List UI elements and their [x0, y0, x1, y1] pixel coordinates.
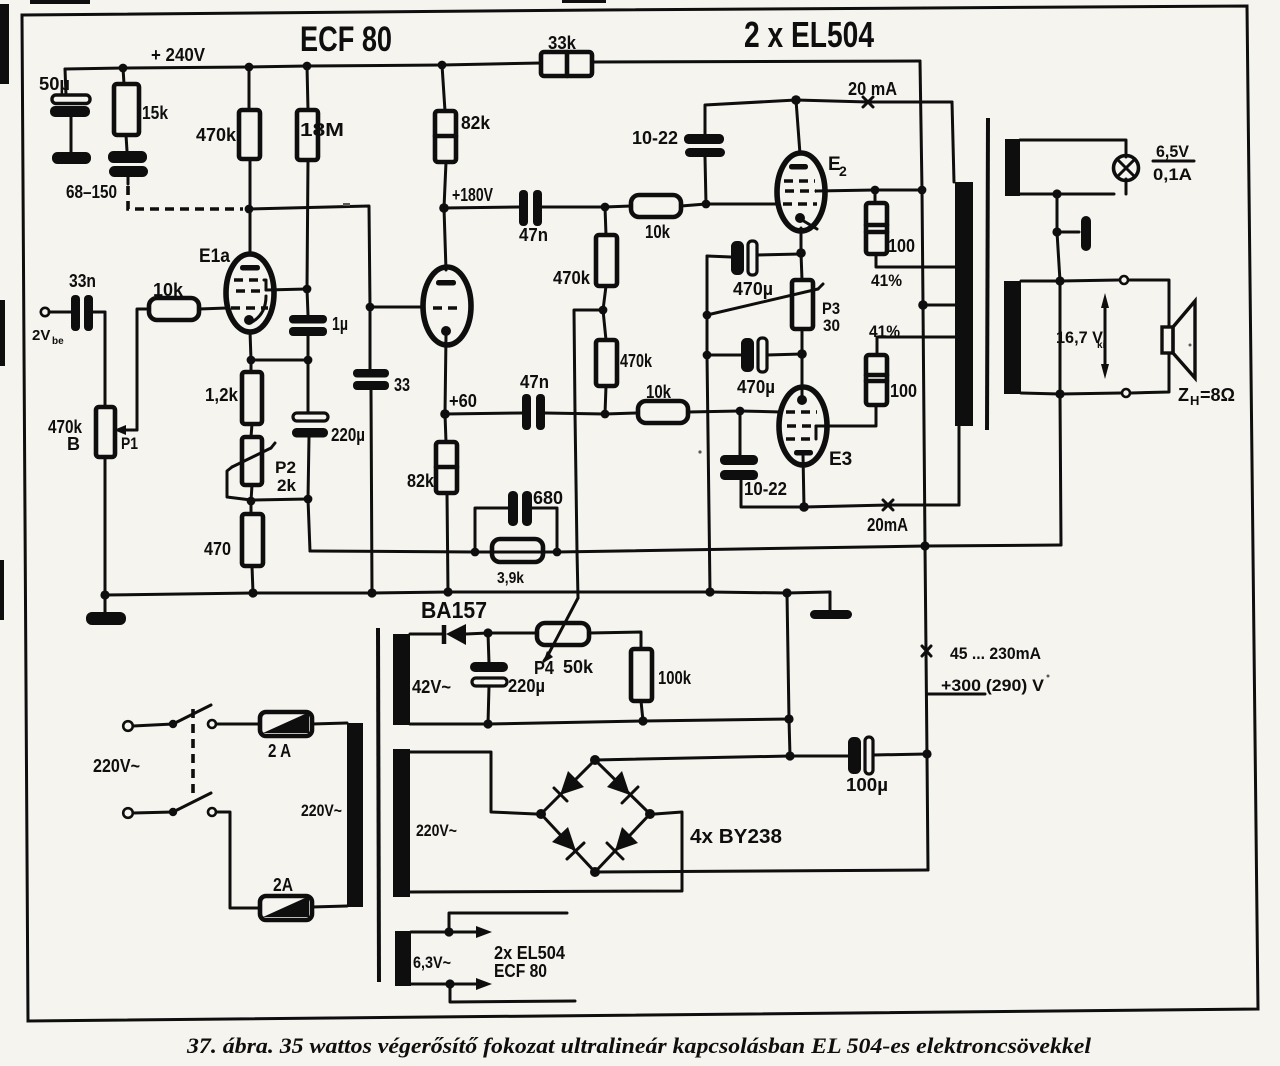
wire to E3 grid — [740, 411, 781, 412]
node bias rectifier — [483, 628, 492, 637]
svg-text:P4: P4 — [534, 658, 554, 678]
output transformer lamp winding — [1005, 139, 1020, 196]
svg-text:Z: Z — [1178, 385, 1189, 405]
svg-text:470µ: 470µ — [737, 377, 775, 397]
node hum bus lower — [703, 351, 712, 360]
power transformer 42V winding — [393, 634, 410, 725]
tube E1b (ECF80 triode section) — [423, 208, 471, 414]
svg-text:+ 240V: + 240V — [151, 45, 205, 65]
node E2 grid / 10-22 junction — [702, 200, 711, 209]
diode D1 upper-left — [554, 771, 584, 801]
svg-text:50µ: 50µ — [39, 74, 70, 94]
svg-text:ECF 80: ECF 80 — [494, 961, 547, 981]
node E2 anode — [791, 95, 801, 105]
wire 20mA line bottom — [804, 426, 959, 535]
wire ground-to-bridge vertical — [787, 593, 790, 756]
capacitor 33n — [49, 271, 105, 331]
node grid2 junction — [366, 303, 375, 312]
svg-text:100µ: 100µ — [846, 775, 888, 795]
node E2 cathode — [796, 248, 806, 258]
diode D3 lower-left — [552, 827, 584, 859]
node bridge minus — [785, 751, 794, 760]
measuring arrow 16,7V — [1101, 293, 1109, 379]
svg-text:E1a: E1a — [199, 246, 230, 267]
potentiometer P1 470k B — [48, 309, 149, 595]
svg-text:+300 (290) V: +300 (290) V — [941, 676, 1045, 695]
capacitor 470µ (E3 cathode) — [707, 338, 802, 397]
wire HT top to bridge — [410, 752, 536, 814]
output transformer core — [987, 118, 988, 430]
svg-text:4x BY238: 4x BY238 — [690, 826, 782, 848]
svg-text:1µ: 1µ — [332, 314, 348, 334]
chassis stub near lamp — [1052, 194, 1091, 251]
diode D4 lower-right — [607, 827, 638, 859]
svg-text:45 ... 230mA: 45 ... 230mA — [950, 644, 1041, 663]
resistor 100 (E3 screen) — [866, 337, 955, 405]
resistor 100k — [631, 649, 692, 721]
wire +300 stub — [928, 693, 985, 696]
svg-text:B: B — [67, 434, 80, 454]
svg-text:P2: P2 — [275, 458, 296, 477]
tube E1a (ECF80 pentode section) — [199, 246, 274, 332]
svg-text:+180V: +180V — [452, 185, 493, 205]
svg-text:470k: 470k — [196, 125, 237, 145]
svg-text:=8Ω: =8Ω — [1200, 385, 1235, 405]
resistor 100 (E2 screen) — [866, 190, 955, 267]
mains switch lower — [123, 793, 216, 818]
capacitor 220µ bias — [470, 633, 545, 724]
svg-text:470k: 470k — [620, 351, 653, 371]
measuring point X bottom — [883, 500, 893, 510]
ground symbol right — [810, 592, 852, 619]
wire common line — [310, 545, 1061, 552]
svg-text:15k: 15k — [142, 103, 169, 123]
diode BA157 — [410, 624, 488, 645]
bridge rectifier 4x BY238 — [536, 755, 782, 877]
svg-text:470µ: 470µ — [733, 279, 773, 299]
potentiometer P3 30 — [707, 253, 840, 354]
capacitor 68-150 — [66, 151, 148, 202]
svg-text:220V~: 220V~ — [416, 821, 457, 840]
svg-text:6,5V: 6,5V — [1156, 142, 1190, 161]
svg-text:82k: 82k — [461, 113, 491, 133]
resistor 470 — [204, 501, 263, 593]
svg-text:2V: 2V — [32, 327, 50, 344]
wire E1a cathode lead — [250, 331, 251, 360]
wire +300 feed vertical — [920, 61, 928, 870]
node bias divider mid — [599, 306, 608, 315]
wire to E2 grid — [706, 203, 779, 206]
potentiometer P2 2k — [227, 437, 297, 501]
label ZH=8 ohm — [1178, 385, 1235, 408]
svg-text:2 A: 2 A — [268, 741, 291, 761]
wire bridge minus to common — [595, 756, 790, 760]
svg-text:2: 2 — [839, 163, 847, 179]
resistor 10k (input grid stopper) — [149, 280, 227, 320]
capacitor 100µ — [790, 737, 932, 795]
svg-text:+60: +60 — [449, 391, 477, 411]
potentiometer P4 50k — [488, 598, 641, 678]
svg-text:2k: 2k — [277, 476, 297, 495]
svg-text:P1: P1 — [121, 434, 138, 453]
power transformer primary winding — [347, 723, 363, 907]
node E3 grid / 10-22 junction — [736, 407, 745, 416]
resistor 10k (E3 grid) — [605, 382, 740, 423]
tube E2 (EL504) — [777, 100, 847, 253]
wire E3 screen line — [816, 405, 876, 426]
capacitor 10-22 (upper trimmer) — [632, 100, 796, 204]
wire E1a screen to 18M node — [266, 289, 307, 290]
loudspeaker — [1162, 301, 1195, 378]
svg-text:10k: 10k — [153, 280, 184, 300]
node +300 at common line — [920, 541, 929, 550]
node 47n / 470k junction — [601, 203, 610, 212]
output transformer primary winding — [955, 182, 973, 426]
resistor 3,9k — [471, 539, 562, 587]
svg-text:680: 680 — [533, 488, 563, 508]
wire bridge plus riser — [595, 870, 928, 872]
wire E2 screen line — [816, 186, 926, 195]
resistor 470k (E1a anode) — [196, 67, 260, 255]
svg-text:18M: 18M — [300, 120, 344, 140]
capacitor 47n (bottom coupling) — [445, 372, 605, 430]
svg-text:2 x EL504: 2 x EL504 — [744, 14, 874, 55]
svg-text:33k: 33k — [548, 33, 577, 53]
svg-text:470k: 470k — [553, 268, 591, 288]
resistor 82k (E1b anode) — [435, 65, 491, 208]
wire P2 bottom to 220µ line — [251, 499, 308, 500]
svg-text:100: 100 — [890, 381, 917, 401]
svg-text:10-22: 10-22 — [632, 128, 678, 148]
svg-text:H: H — [1190, 393, 1199, 408]
node P2 bottom to 220µ line — [304, 495, 313, 504]
power transformer HT winding — [393, 749, 410, 897]
node +180V — [439, 185, 493, 213]
svg-text:220V~: 220V~ — [301, 801, 342, 820]
heater lead upper — [411, 913, 567, 938]
speaker circuit wires — [1021, 276, 1169, 399]
svg-text:33: 33 — [394, 375, 410, 395]
svg-text:20mA: 20mA — [867, 515, 908, 535]
resistor 1,2k — [205, 360, 262, 437]
wire center tap — [918, 300, 955, 310]
capacitor 470µ (E2 cathode) — [707, 241, 801, 315]
ground bus — [100, 587, 830, 599]
diode D2 upper-right — [607, 771, 638, 803]
paper specks — [343, 203, 1192, 678]
node P2 bottom — [247, 497, 256, 506]
svg-text:100: 100 — [888, 236, 915, 256]
resistor 33k — [541, 33, 592, 76]
resistor 18M — [297, 66, 344, 289]
svg-text:33n: 33n — [69, 271, 96, 291]
output transformer speaker winding — [1004, 281, 1021, 394]
svg-text:50k: 50k — [563, 657, 594, 677]
wire to E1b grid — [370, 306, 424, 309]
power transformer 6,3V winding — [395, 931, 411, 986]
svg-text:42V~: 42V~ — [412, 677, 451, 697]
node E3 cathode top — [797, 349, 807, 359]
tube E3 (EL504, inverted) — [779, 354, 852, 507]
node hum bus upper — [703, 311, 712, 320]
wire HT bottom to bridge — [410, 812, 682, 892]
svg-text:10k: 10k — [646, 382, 672, 402]
resistor 82k (E1b cathode) — [407, 414, 457, 592]
fuse 2A upper — [216, 712, 347, 761]
resistor 470k (lower bias divider) — [596, 310, 653, 414]
ground symbol left — [86, 595, 126, 625]
capacitor 10-22 (lower trimmer) — [720, 411, 804, 507]
svg-text:2x EL504: 2x EL504 — [494, 943, 565, 963]
svg-text:41%: 41% — [871, 271, 902, 290]
capacitor 50µ — [39, 69, 90, 152]
label 16,7V — [1056, 328, 1106, 351]
measuring point X +300 — [922, 646, 931, 656]
capacitor 220µ — [292, 360, 365, 551]
capacitor 47n (top coupling) — [444, 190, 605, 245]
svg-text:220µ: 220µ — [331, 425, 365, 445]
capacitor 33 — [353, 307, 410, 593]
svg-text:470: 470 — [204, 539, 231, 559]
resistor 15k — [114, 68, 169, 151]
resistor 470k (upper bias divider) — [553, 207, 617, 310]
svg-text:10k: 10k — [645, 222, 671, 242]
wire bias feed vertical — [574, 310, 603, 598]
power transformer core — [378, 628, 379, 982]
svg-text:37. ábra. 35 wattos végerősítő: 37. ábra. 35 wattos végerősítő fokozat u… — [186, 1033, 1092, 1058]
svg-text:1,2k: 1,2k — [205, 385, 239, 405]
wire cathode to 1µ branch — [251, 359, 308, 362]
lamp 6,5V 0,1A — [1114, 142, 1195, 184]
dashed feedback wire from 68-150 — [128, 177, 370, 307]
lamp circuit wires — [1020, 140, 1126, 199]
svg-text:6,3V~: 6,3V~ — [413, 953, 451, 972]
svg-text:41%: 41% — [869, 322, 900, 341]
svg-text:68–150: 68–150 — [66, 182, 117, 202]
svg-text:82k: 82k — [407, 471, 435, 491]
svg-text:E3: E3 — [829, 449, 852, 470]
capacitor 1µ — [289, 289, 348, 360]
svg-text:220V~: 220V~ — [93, 756, 140, 776]
svg-text:BA157: BA157 — [421, 597, 487, 623]
svg-text:47n: 47n — [519, 225, 548, 245]
wire lamp common vertical — [1057, 232, 1061, 545]
wire 20 mA line top — [796, 79, 954, 182]
svg-text:10-22: 10-22 — [744, 479, 787, 499]
svg-text:47n: 47n — [520, 372, 549, 392]
svg-text:100k: 100k — [658, 668, 692, 688]
heater lead lower — [411, 978, 575, 1002]
resistor 10k (E2 grid) — [605, 195, 706, 242]
svg-text:3,9k: 3,9k — [497, 570, 524, 587]
svg-text:ECF 80: ECF 80 — [300, 20, 392, 59]
svg-text:0,1A: 0,1A — [1153, 165, 1192, 184]
node 47n2 / 470k junction — [601, 410, 610, 419]
svg-text:be: be — [52, 336, 64, 347]
capacitor 680 — [475, 488, 563, 552]
measuring point X top — [863, 97, 873, 107]
chassis bar under 50µ — [52, 152, 91, 164]
svg-text:30: 30 — [823, 316, 840, 335]
svg-text:2A: 2A — [273, 875, 293, 895]
node +60 — [440, 391, 477, 419]
wire hum bus vertical — [707, 256, 710, 592]
scan edge artifacts — [0, 0, 606, 620]
fuse 2A lower — [216, 812, 347, 920]
node E3 anode — [799, 502, 809, 512]
mains switch upper — [123, 705, 216, 731]
wire 42V return line — [410, 714, 794, 728]
input terminal 2V — [32, 308, 64, 347]
wire +240V rail — [65, 63, 541, 69]
svg-text:220µ: 220µ — [508, 676, 545, 696]
switch link dashed — [191, 709, 195, 795]
